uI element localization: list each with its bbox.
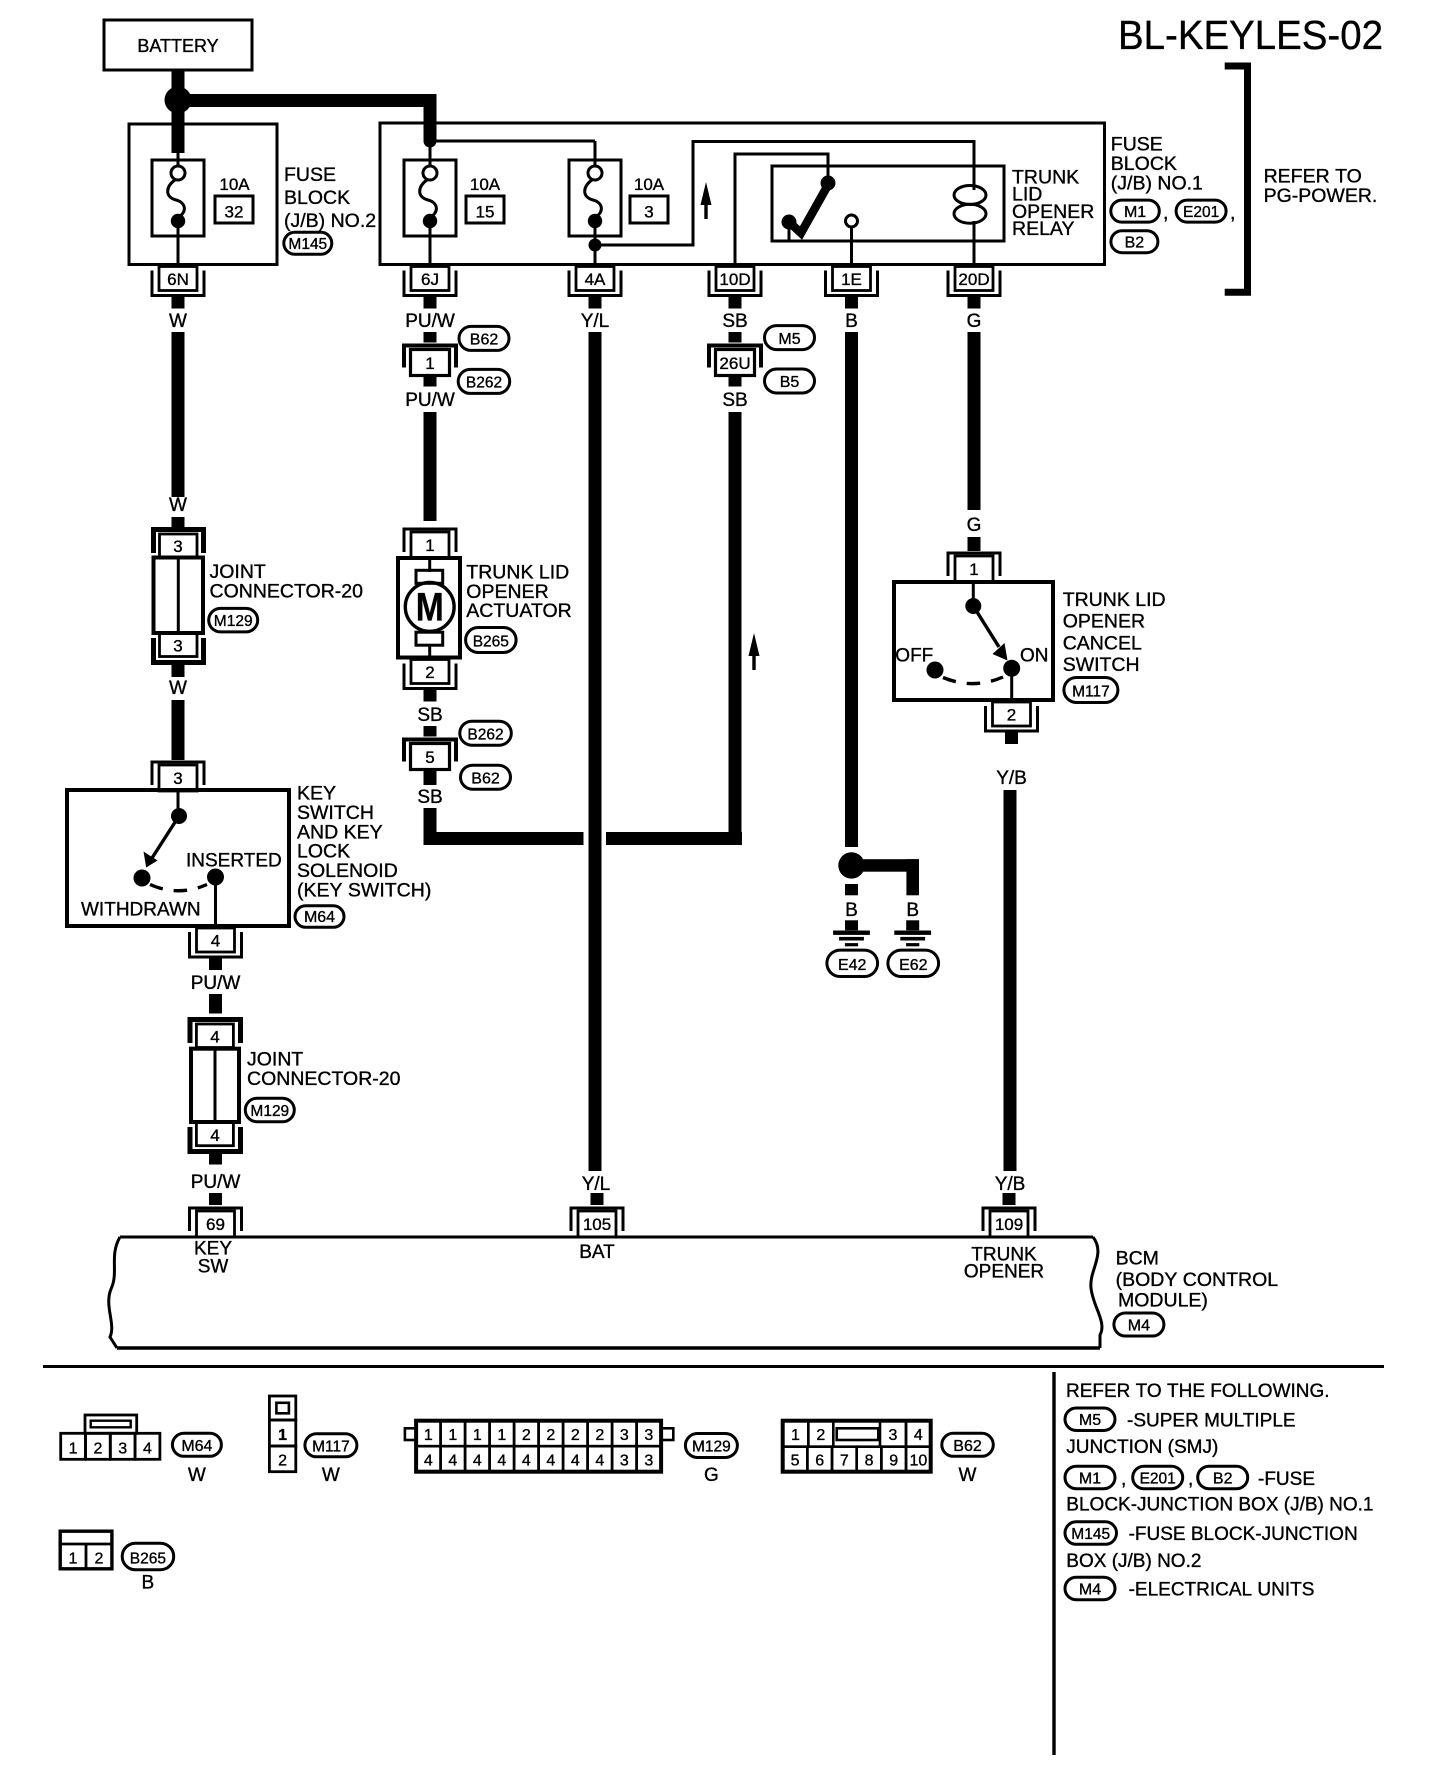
connector 1E xyxy=(833,267,871,291)
node junction below fuse 3 xyxy=(589,239,602,252)
svg-text:M5: M5 xyxy=(778,331,800,348)
svg-text:3: 3 xyxy=(644,1427,653,1444)
wire G 20D to cancel switch xyxy=(968,332,981,510)
wire relay contact to connector 1E xyxy=(850,227,853,266)
connector ref M1 legend xyxy=(1065,1466,1115,1489)
connector 3 key switch xyxy=(159,765,197,791)
wire fuse 32 to connector 6N xyxy=(177,227,180,266)
svg-text:M129: M129 xyxy=(250,1103,289,1120)
svg-text:5: 5 xyxy=(791,1453,800,1470)
svg-text:2: 2 xyxy=(278,1453,287,1470)
key switch internal contacts xyxy=(177,792,180,810)
fuse block (J/B) No.2 box M145 xyxy=(129,124,277,265)
svg-text:M64: M64 xyxy=(181,1438,212,1455)
svg-text:4: 4 xyxy=(210,1028,219,1047)
svg-text:W: W xyxy=(169,678,187,699)
svg-text:4A: 4A xyxy=(585,270,606,289)
svg-text:PU/W: PU/W xyxy=(405,311,455,332)
svg-text:E42: E42 xyxy=(838,957,867,974)
svg-text:M1: M1 xyxy=(1079,1470,1101,1487)
svg-text:SB: SB xyxy=(417,787,442,808)
svg-text:105: 105 xyxy=(583,1215,611,1234)
svg-text:B62: B62 xyxy=(470,332,499,349)
svg-text:9: 9 xyxy=(889,1453,898,1470)
wire Y/L 4A to BCM xyxy=(589,332,602,1171)
actuator motor xyxy=(428,560,431,572)
svg-text:B265: B265 xyxy=(130,1550,166,1567)
node battery junction xyxy=(165,87,192,114)
svg-text:4: 4 xyxy=(210,1126,219,1145)
svg-text:-FUSE: -FUSE xyxy=(1258,1469,1315,1490)
connector ref M5 xyxy=(765,326,815,350)
svg-text:1: 1 xyxy=(969,560,978,579)
connector ref M145 legend xyxy=(1065,1522,1117,1545)
svg-text:3: 3 xyxy=(118,1440,127,1457)
svg-text:CANCEL: CANCEL xyxy=(1063,632,1142,654)
svg-text:1: 1 xyxy=(278,1427,287,1444)
svg-text:7: 7 xyxy=(840,1453,849,1470)
connector ref B265 xyxy=(466,628,516,653)
joint connector-20 M129 upper xyxy=(154,530,204,554)
svg-text:OFF: OFF xyxy=(895,646,933,667)
svg-text:M: M xyxy=(416,586,444,630)
svg-text:10D: 10D xyxy=(719,270,750,289)
wire junction to fuse 3 xyxy=(430,140,595,143)
connector 69 to BCM xyxy=(197,1211,235,1237)
connector 1 actuator xyxy=(411,532,449,558)
svg-text:WITHDRAWN: WITHDRAWN xyxy=(81,900,201,921)
wire W 6N to joint connector xyxy=(172,332,185,497)
svg-text:B62: B62 xyxy=(953,1438,982,1455)
svg-text:5: 5 xyxy=(425,748,434,767)
connector ref B62 xyxy=(459,326,509,350)
svg-text:1: 1 xyxy=(69,1551,78,1568)
wire relay coil to connector 20D xyxy=(973,221,976,266)
wire branch to E62 ground xyxy=(852,859,920,872)
svg-text:FUSE: FUSE xyxy=(284,164,336,186)
connector ref M1 xyxy=(1111,200,1160,222)
svg-text:20D: 20D xyxy=(958,270,989,289)
svg-text:W: W xyxy=(322,1465,340,1486)
svg-text:1: 1 xyxy=(424,1427,433,1444)
svg-text:B265: B265 xyxy=(473,634,509,651)
svg-text:BATTERY: BATTERY xyxy=(137,36,218,56)
svg-text:B2: B2 xyxy=(1213,1470,1233,1487)
svg-text:E201: E201 xyxy=(1140,1470,1176,1487)
svg-text:B: B xyxy=(845,900,858,921)
fuse 15 10A xyxy=(404,160,456,236)
wire junction to fuse 15 xyxy=(429,141,432,167)
connector ref B262 (5) xyxy=(460,721,512,745)
connector view M117 xyxy=(269,1396,295,1420)
wire SB horizontal bar right segment xyxy=(606,832,742,845)
svg-text:6J: 6J xyxy=(421,270,439,289)
connector ref M129 lower xyxy=(245,1098,294,1122)
svg-text:6: 6 xyxy=(815,1453,824,1470)
svg-text:1: 1 xyxy=(473,1427,482,1444)
connector ref E201 legend xyxy=(1133,1466,1183,1489)
svg-text:4: 4 xyxy=(571,1453,580,1470)
connector ref M5 legend xyxy=(1065,1408,1115,1431)
svg-text:M129: M129 xyxy=(692,1439,731,1456)
svg-text:10A: 10A xyxy=(219,175,250,194)
svg-text:4: 4 xyxy=(211,932,220,951)
svg-text:,: , xyxy=(1121,1469,1126,1490)
svg-text:2: 2 xyxy=(95,1551,104,1568)
svg-text:RELAY: RELAY xyxy=(1012,218,1075,240)
svg-text:M1: M1 xyxy=(1124,204,1146,221)
svg-text:109: 109 xyxy=(995,1215,1023,1234)
fuse 32 10A xyxy=(152,160,204,236)
wire SB vertical up to 26U xyxy=(729,412,742,845)
svg-text:10A: 10A xyxy=(470,175,501,194)
svg-text:MODULE): MODULE) xyxy=(1118,1290,1208,1312)
connector 6N xyxy=(159,267,197,291)
svg-text:26U: 26U xyxy=(719,354,750,373)
cancel switch internal contacts xyxy=(972,584,975,600)
svg-text:B2: B2 xyxy=(1125,234,1145,251)
connector 109 to BCM xyxy=(990,1211,1028,1237)
node junction inside J/B No.1 xyxy=(424,135,437,148)
connector ref E201 xyxy=(1176,200,1226,222)
connector 26U M5/B5 inline xyxy=(729,332,742,343)
separator line xyxy=(43,1365,1384,1368)
svg-text:W: W xyxy=(169,311,187,332)
node ground junction xyxy=(838,852,864,878)
fuse 3 10A xyxy=(569,160,621,236)
connector view M129 xyxy=(416,1421,441,1447)
svg-text:-SUPER MULTIPLE: -SUPER MULTIPLE xyxy=(1127,1411,1296,1432)
connector 4 key switch xyxy=(197,928,235,952)
svg-text:INSERTED: INSERTED xyxy=(186,851,282,872)
connector 105 to BCM xyxy=(578,1211,616,1237)
connector view B62 xyxy=(783,1421,809,1447)
svg-text:Y/L: Y/L xyxy=(581,311,610,332)
wire inside fuse block No.2 xyxy=(177,153,180,167)
connector ref M4 xyxy=(1114,1313,1164,1336)
svg-text:BCM: BCM xyxy=(1116,1248,1159,1270)
fuse block (J/B) No.1 box xyxy=(380,123,1105,265)
wire PU/W key switch to joint connector 2 xyxy=(209,994,222,1014)
svg-text:OPENER: OPENER xyxy=(1063,611,1145,633)
battery xyxy=(104,20,252,70)
wire fuse 15 to connector 6J xyxy=(429,227,432,266)
svg-text:ACTUATOR: ACTUATOR xyxy=(466,600,571,622)
connector ref B2 xyxy=(1111,231,1158,253)
svg-text:BOX (J/B) NO.2: BOX (J/B) NO.2 xyxy=(1066,1551,1201,1572)
wire PU/W below 6J xyxy=(424,332,437,343)
svg-text:2: 2 xyxy=(93,1440,102,1457)
svg-text:10A: 10A xyxy=(634,175,665,194)
svg-text:1: 1 xyxy=(791,1427,800,1444)
connector ref M4 legend xyxy=(1065,1577,1115,1600)
connector 1 cancel switch xyxy=(955,556,993,582)
svg-text:B62: B62 xyxy=(471,770,500,787)
svg-text:4: 4 xyxy=(143,1440,152,1457)
svg-text:-ELECTRICAL UNITS: -ELECTRICAL UNITS xyxy=(1129,1580,1315,1601)
arrow up (inside J/B No.1) xyxy=(701,182,712,205)
svg-text:1: 1 xyxy=(497,1427,506,1444)
svg-text:1: 1 xyxy=(425,536,434,555)
svg-text:4: 4 xyxy=(424,1453,433,1470)
svg-text:3: 3 xyxy=(173,637,182,656)
joint connector-20 M129 lower xyxy=(190,1020,241,1044)
bracket refer to pg-power xyxy=(1225,66,1248,292)
connector ref M129 xyxy=(209,608,258,632)
svg-text:B262: B262 xyxy=(467,726,503,743)
svg-text:4: 4 xyxy=(497,1453,506,1470)
relay fixed contact xyxy=(846,215,858,227)
relay armature switch xyxy=(789,185,828,233)
svg-text:G: G xyxy=(967,311,982,332)
key switch box M64 xyxy=(67,790,289,926)
svg-text:OPENER: OPENER xyxy=(964,1262,1044,1283)
svg-text:M117: M117 xyxy=(312,1438,350,1455)
svg-text:6N: 6N xyxy=(167,270,189,289)
svg-text:BLOCK-JUNCTION BOX (J/B) NO.1: BLOCK-JUNCTION BOX (J/B) NO.1 xyxy=(1066,1495,1373,1516)
svg-text:W: W xyxy=(959,1465,977,1486)
connector 1 B62/B262 inline xyxy=(404,346,456,368)
wire SB horizontal bar left segment xyxy=(424,832,584,845)
svg-text:,: , xyxy=(1230,202,1235,224)
wire connector 10D to relay armature xyxy=(735,154,828,266)
svg-text:E62: E62 xyxy=(899,957,928,974)
svg-text:(J/B) NO.1: (J/B) NO.1 xyxy=(1111,173,1203,195)
svg-text:B: B xyxy=(845,311,858,332)
svg-text:3: 3 xyxy=(620,1453,629,1470)
svg-text:8: 8 xyxy=(865,1453,874,1470)
svg-text:(J/B) NO.2: (J/B) NO.2 xyxy=(284,210,376,232)
connector ref M117 xyxy=(1064,678,1118,703)
wire Y/B cancel switch to BCM xyxy=(1004,790,1017,1171)
svg-text:1: 1 xyxy=(448,1427,457,1444)
svg-text:SB: SB xyxy=(722,311,747,332)
svg-text:BL-KEYLES-02: BL-KEYLES-02 xyxy=(1118,12,1383,58)
svg-text:2: 2 xyxy=(595,1427,604,1444)
svg-text:G: G xyxy=(967,515,982,536)
wire SB actuator to connector 5 xyxy=(424,726,437,737)
trunk lid opener actuator box B265 xyxy=(398,558,460,658)
wire W joint connector to key switch xyxy=(172,700,185,760)
svg-text:1: 1 xyxy=(69,1440,78,1457)
svg-text:3: 3 xyxy=(889,1427,898,1444)
BCM (body control module) box xyxy=(120,1236,1093,1239)
svg-text:PU/W: PU/W xyxy=(191,973,241,994)
connector ref M64 xyxy=(295,906,344,928)
svg-text:Y/B: Y/B xyxy=(995,1174,1026,1195)
wire B 1E down to ground junction xyxy=(845,332,858,847)
svg-text:CONNECTOR-20: CONNECTOR-20 xyxy=(247,1068,401,1090)
relay trunk lid opener box xyxy=(772,166,1004,241)
arrow up (SB riser) xyxy=(749,633,760,656)
svg-text:BAT: BAT xyxy=(579,1242,615,1263)
connector ref B5 xyxy=(765,369,815,393)
wire SB connector 5 down to junction bar xyxy=(424,808,437,845)
svg-text:M117: M117 xyxy=(1072,684,1110,701)
svg-text:10: 10 xyxy=(909,1453,927,1470)
svg-text:B5: B5 xyxy=(780,374,800,391)
svg-text:M129: M129 xyxy=(214,613,253,630)
svg-text:W: W xyxy=(169,495,187,516)
svg-text:JUNCTION (SMJ): JUNCTION (SMJ) xyxy=(1066,1437,1218,1458)
wire battery junction to J/B No.1 (horizontal) xyxy=(178,94,437,107)
connector 10D xyxy=(716,267,754,291)
svg-text:SB: SB xyxy=(417,705,442,726)
svg-text:E201: E201 xyxy=(1183,204,1219,221)
svg-text:1E: 1E xyxy=(841,270,862,289)
svg-text:69: 69 xyxy=(206,1215,225,1234)
connector ref B262 xyxy=(458,369,510,393)
svg-text:4: 4 xyxy=(595,1453,604,1470)
svg-text:M145: M145 xyxy=(1071,1526,1110,1543)
svg-text:REFER TO THE FOLLOWING.: REFER TO THE FOLLOWING. xyxy=(1066,1381,1330,1402)
connector ref B2 legend xyxy=(1198,1466,1248,1489)
svg-text:B: B xyxy=(142,1573,155,1594)
svg-text:1: 1 xyxy=(425,354,434,373)
connector 4A xyxy=(576,267,614,291)
wire stub to E42 ground xyxy=(845,884,858,895)
svg-text:,: , xyxy=(1188,1469,1193,1490)
svg-text:B262: B262 xyxy=(466,375,502,392)
svg-text:2: 2 xyxy=(1007,706,1016,725)
svg-text:4: 4 xyxy=(448,1453,457,1470)
connector 2 actuator xyxy=(411,660,449,684)
connector 2 cancel switch xyxy=(993,702,1031,726)
svg-text:4: 4 xyxy=(546,1453,555,1470)
svg-text:(KEY SWITCH): (KEY SWITCH) xyxy=(297,880,431,902)
svg-text:2: 2 xyxy=(571,1427,580,1444)
svg-text:CONNECTOR-20: CONNECTOR-20 xyxy=(210,581,364,603)
svg-text:4: 4 xyxy=(473,1453,482,1470)
wire PU/W connector 1 to actuator xyxy=(424,412,437,521)
trunk lid opener cancel switch box M117 xyxy=(894,582,1053,700)
svg-text:PU/W: PU/W xyxy=(405,390,455,411)
connector ref B62 (5) xyxy=(461,765,511,789)
svg-text:TRUNK LID: TRUNK LID xyxy=(1063,589,1166,611)
connector 20D xyxy=(955,267,993,291)
svg-text:BLOCK: BLOCK xyxy=(284,187,350,209)
connector 6J xyxy=(411,267,449,291)
svg-text:3: 3 xyxy=(644,1453,653,1470)
legend divider line xyxy=(1052,1372,1055,1755)
connector 5 B262/B62 inline xyxy=(404,740,456,762)
svg-text:15: 15 xyxy=(476,203,495,222)
wire battery junction down to fuse block No.2 xyxy=(172,100,185,153)
svg-text:M64: M64 xyxy=(304,909,335,926)
svg-text:M4: M4 xyxy=(1128,1318,1150,1335)
svg-text:G: G xyxy=(704,1465,719,1486)
svg-text:,: , xyxy=(1163,202,1168,224)
svg-text:2: 2 xyxy=(816,1427,825,1444)
wire battery to junction xyxy=(172,70,185,96)
wire fuse 3 to relay coil xyxy=(595,142,974,246)
svg-text:Y/L: Y/L xyxy=(582,1174,611,1195)
relay coil xyxy=(954,186,986,205)
svg-text:32: 32 xyxy=(225,203,244,222)
svg-text:B: B xyxy=(906,900,919,921)
svg-text:3: 3 xyxy=(620,1427,629,1444)
svg-text:(BODY CONTROL: (BODY CONTROL xyxy=(1116,1269,1279,1291)
svg-text:W: W xyxy=(188,1465,206,1486)
svg-text:ON: ON xyxy=(1020,646,1049,667)
svg-text:-FUSE BLOCK-JUNCTION: -FUSE BLOCK-JUNCTION xyxy=(1129,1524,1358,1545)
connector view B265 xyxy=(60,1531,112,1569)
svg-text:SB: SB xyxy=(722,390,747,411)
svg-text:2: 2 xyxy=(546,1427,555,1444)
svg-text:M145: M145 xyxy=(288,236,327,253)
svg-text:M5: M5 xyxy=(1079,1412,1101,1429)
svg-text:3: 3 xyxy=(173,537,182,556)
ground E62 xyxy=(894,931,931,935)
svg-text:M4: M4 xyxy=(1079,1581,1101,1598)
svg-text:Y/B: Y/B xyxy=(996,768,1027,789)
svg-text:3: 3 xyxy=(173,769,182,788)
svg-text:4: 4 xyxy=(522,1453,531,1470)
svg-text:SWITCH: SWITCH xyxy=(1063,654,1140,676)
svg-text:2: 2 xyxy=(522,1427,531,1444)
svg-text:3: 3 xyxy=(644,203,653,222)
svg-text:4: 4 xyxy=(914,1427,923,1444)
connector view M64 xyxy=(61,1433,86,1459)
svg-text:PU/W: PU/W xyxy=(191,1172,241,1193)
svg-text:SW: SW xyxy=(198,1257,229,1278)
connector ref M145 xyxy=(284,232,332,254)
svg-text:2: 2 xyxy=(425,663,434,682)
wire fuse 3 to connector 4A xyxy=(594,227,597,266)
svg-text:PG-POWER.: PG-POWER. xyxy=(1264,185,1378,207)
ground E42 xyxy=(833,931,870,935)
